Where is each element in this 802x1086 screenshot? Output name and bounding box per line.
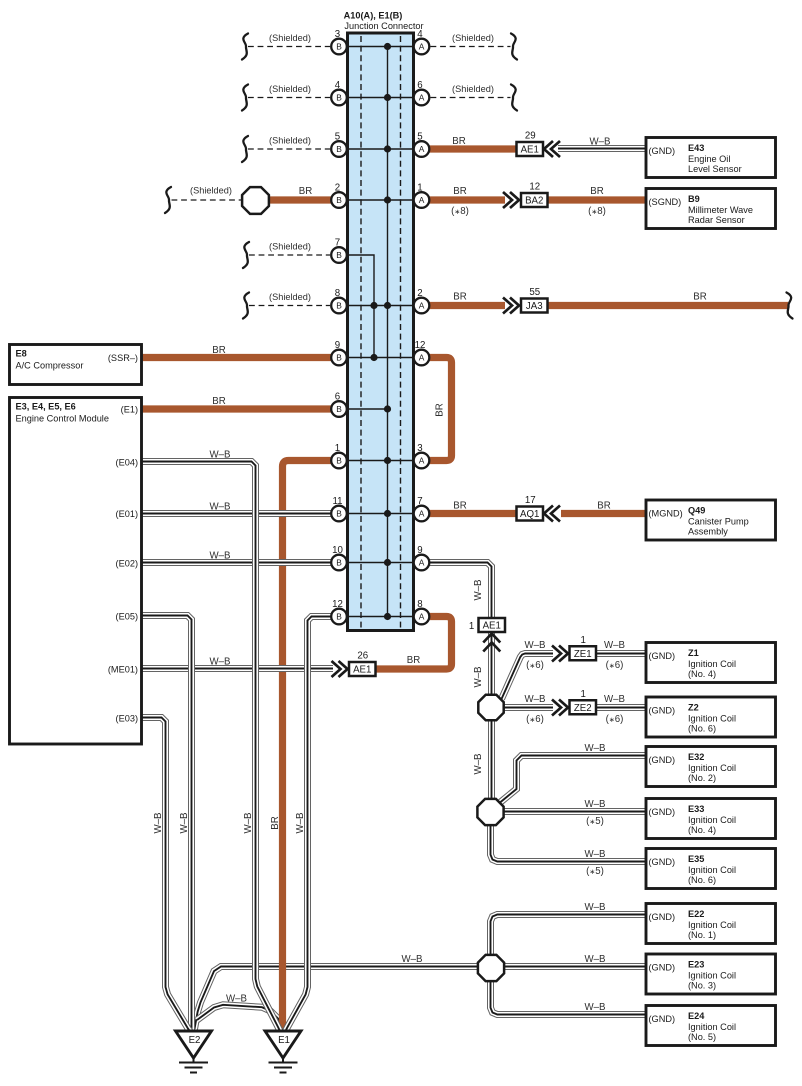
- svg-text:(Shielded): (Shielded): [452, 33, 494, 43]
- svg-text:(GND): (GND): [649, 706, 676, 716]
- svg-text:E2: E2: [189, 1035, 201, 1046]
- wire BR A7 to AQ1: [430, 510, 518, 517]
- svg-text:(E1): (E1): [121, 405, 138, 415]
- connector ZE2 pin 1: [570, 689, 597, 715]
- svg-text:Assembly: Assembly: [688, 527, 728, 537]
- svg-text:W–B: W–B: [473, 667, 484, 688]
- svg-text:W–B: W–B: [585, 743, 606, 754]
- internal row wire row 11: [348, 562, 413, 564]
- wire W-B splice3 to E24: [491, 981, 647, 1015]
- svg-text:B: B: [336, 456, 342, 466]
- shield brace row1 right: [511, 34, 517, 60]
- shielded wire row2 right: [431, 97, 511, 99]
- svg-text:Radar Sensor: Radar Sensor: [688, 215, 745, 225]
- svg-text:7: 7: [417, 496, 422, 507]
- shielded wire row2 left: [248, 97, 330, 99]
- terminal B7: [331, 238, 347, 263]
- svg-text:E22: E22: [688, 909, 704, 919]
- terminal B5: [331, 132, 347, 157]
- svg-text:Level Sensor: Level Sensor: [688, 164, 742, 174]
- connector AE1 pin 1: [469, 618, 505, 632]
- svg-text:B9: B9: [688, 194, 700, 204]
- internal row wire row 3: [348, 148, 413, 150]
- svg-text:W–B: W–B: [590, 137, 611, 148]
- svg-text:Z1: Z1: [688, 648, 699, 658]
- svg-text:W–B: W–B: [585, 902, 606, 913]
- shield brace row3 left: [242, 136, 248, 162]
- svg-text:JA3: JA3: [526, 301, 543, 312]
- svg-text:ZE2: ZE2: [574, 703, 592, 714]
- junction dot: [384, 145, 391, 152]
- svg-text:BR: BR: [212, 345, 225, 356]
- terminal B8: [331, 288, 347, 313]
- svg-text:B: B: [336, 404, 342, 414]
- connector JA3 pin 55: [521, 287, 548, 313]
- chevrons AE1-29 (female): [544, 141, 560, 157]
- svg-text:(SSR–): (SSR–): [108, 353, 138, 363]
- junction dot: [384, 302, 391, 309]
- component E33 Ignition Coil No4: [646, 799, 776, 839]
- svg-text:B: B: [336, 509, 342, 519]
- svg-text:5: 5: [335, 132, 340, 143]
- wire W-B ZE1 to Z1: [597, 650, 647, 657]
- svg-text:AE1: AE1: [521, 145, 539, 156]
- component E43 Engine Oil Level Sensor: [646, 138, 776, 178]
- svg-text:E43: E43: [688, 143, 704, 153]
- internal row wire row 9: [348, 460, 413, 462]
- svg-text:A: A: [419, 558, 425, 568]
- svg-text:W–B: W–B: [525, 694, 546, 705]
- svg-text:(No. 1): (No. 1): [688, 930, 716, 940]
- terminal B2: [331, 183, 347, 208]
- svg-text:BR: BR: [453, 186, 466, 197]
- svg-text:(GND): (GND): [649, 651, 676, 661]
- shield brace row1 left: [242, 34, 248, 60]
- svg-text:Ignition Coil: Ignition Coil: [688, 1022, 736, 1032]
- svg-text:W–B: W–B: [585, 1002, 606, 1013]
- svg-text:(No. 2): (No. 2): [688, 773, 716, 783]
- chevrons AE1-26 (male): [332, 661, 348, 677]
- wire W-B E02 to B10: [142, 559, 332, 566]
- svg-text:B: B: [336, 250, 342, 260]
- splice octagon 1: [478, 695, 503, 720]
- svg-text:(GND): (GND): [649, 1014, 676, 1024]
- svg-text:6: 6: [417, 80, 422, 91]
- svg-text:11: 11: [332, 496, 342, 507]
- wire BR A5 to AE1: [430, 145, 518, 152]
- svg-text:B: B: [336, 93, 342, 103]
- junction dot: [370, 302, 377, 309]
- junction dot: [384, 457, 391, 464]
- svg-text:9: 9: [335, 340, 340, 351]
- wire W-B ME01 to AE1-26: [142, 665, 334, 672]
- component Z1 Ignition Coil No4: [646, 643, 776, 683]
- ground E2 hatching: [179, 1058, 208, 1073]
- svg-text:W–B: W–B: [473, 580, 484, 601]
- wire W-B splice2 to E33: [504, 808, 647, 815]
- svg-text:A10(A), E1(B): A10(A), E1(B): [344, 11, 403, 21]
- junction dot: [370, 354, 377, 361]
- svg-text:BR: BR: [453, 292, 466, 303]
- svg-text:(∗6): (∗6): [606, 714, 624, 725]
- svg-text:(GND): (GND): [649, 963, 676, 973]
- wire BR AQ1 to Q49: [561, 510, 646, 517]
- shield brace row6 left: [243, 293, 249, 319]
- terminal B12: [331, 599, 347, 624]
- wire W-B splice1 to ZE1: [502, 654, 554, 700]
- terminal A6: [414, 80, 430, 105]
- svg-text:8: 8: [335, 288, 340, 299]
- svg-text:(Shielded): (Shielded): [269, 33, 311, 43]
- svg-text:(No. 4): (No. 4): [688, 825, 716, 835]
- svg-text:W–B: W–B: [210, 657, 231, 668]
- svg-text:(ME01): (ME01): [108, 665, 138, 675]
- svg-text:8: 8: [417, 599, 422, 610]
- svg-text:5: 5: [417, 132, 422, 143]
- ground E1 triangle: [265, 1031, 301, 1058]
- svg-text:W–B: W–B: [295, 813, 306, 834]
- svg-text:A/C Compressor: A/C Compressor: [16, 361, 84, 371]
- connector ZE1 pin 1: [570, 635, 597, 661]
- component E23 Ignition Coil No3: [646, 954, 776, 994]
- svg-text:(E01): (E01): [116, 509, 138, 519]
- wire W-B splice2 to E32: [500, 756, 646, 803]
- svg-text:W–B: W–B: [210, 502, 231, 513]
- svg-text:W–B: W–B: [585, 849, 606, 860]
- ground E2 triangle: [176, 1031, 212, 1058]
- svg-text:BA2: BA2: [525, 196, 543, 207]
- connector BA2 pin 12: [521, 182, 548, 208]
- terminal A4: [414, 29, 430, 54]
- svg-text:AE1: AE1: [483, 621, 501, 632]
- internal row wire row 10: [348, 513, 413, 515]
- component B9 Millimeter Wave Radar Sensor: [646, 189, 776, 229]
- svg-text:A: A: [419, 301, 425, 311]
- wire BR A8 to AE1-26: [376, 617, 452, 670]
- chevrons ZE1 (male): [552, 646, 568, 662]
- svg-text:(No. 3): (No. 3): [688, 981, 716, 991]
- wire W-B splice3 to E23: [504, 963, 646, 970]
- svg-text:26: 26: [357, 651, 368, 662]
- svg-text:A: A: [419, 144, 425, 154]
- svg-text:W–B: W–B: [585, 954, 606, 965]
- wire W-B ZE2 to Z2: [597, 704, 647, 711]
- junction dot: [384, 559, 391, 566]
- internal dashed bus line right: [400, 36, 402, 628]
- svg-text:Engine Oil: Engine Oil: [688, 154, 730, 164]
- wire W-B splice1 to splice2: [488, 720, 495, 799]
- internal row wire row 12: [348, 616, 413, 618]
- terminal A9: [414, 545, 430, 570]
- svg-text:(∗8): (∗8): [588, 206, 606, 217]
- svg-text:A: A: [419, 509, 425, 519]
- svg-text:E3, E4, E5, E6: E3, E4, E5, E6: [16, 402, 76, 412]
- svg-text:(∗6): (∗6): [526, 660, 544, 671]
- svg-text:(No. 4): (No. 4): [688, 669, 716, 679]
- svg-text:Millimeter Wave: Millimeter Wave: [688, 205, 753, 215]
- svg-text:E1: E1: [278, 1035, 290, 1046]
- shielded wire row4 left: [172, 199, 243, 201]
- svg-text:A: A: [419, 195, 425, 205]
- shielded wire row3 left: [248, 148, 330, 150]
- shield brace row4 left: [165, 187, 171, 213]
- shield brace row2 left: [242, 85, 248, 111]
- svg-text:(SGND): (SGND): [649, 197, 682, 207]
- svg-text:A: A: [419, 353, 425, 363]
- svg-text:W–B: W–B: [243, 813, 254, 834]
- svg-text:(E04): (E04): [116, 458, 138, 468]
- junction dot: [384, 510, 391, 517]
- svg-text:AQ1: AQ1: [520, 509, 539, 520]
- shielded wire row1 left: [248, 46, 330, 48]
- svg-text:E23: E23: [688, 960, 704, 970]
- junction dot: [384, 613, 391, 620]
- svg-text:1: 1: [417, 183, 422, 194]
- svg-text:W–B: W–B: [585, 799, 606, 810]
- junction dot: [384, 196, 391, 203]
- svg-text:B: B: [336, 301, 342, 311]
- svg-text:BR: BR: [452, 136, 465, 147]
- svg-text:1: 1: [469, 621, 474, 632]
- svg-text:E35: E35: [688, 854, 704, 864]
- internal row wire row 7: [348, 357, 413, 359]
- svg-text:Ignition Coil: Ignition Coil: [688, 815, 736, 825]
- wire W-B splice2 to E35: [491, 825, 647, 862]
- wire W-B E03 to ground E2: [142, 718, 191, 1032]
- svg-text:W–B: W–B: [604, 640, 625, 651]
- svg-text:B: B: [336, 195, 342, 205]
- svg-text:E33: E33: [688, 804, 704, 814]
- svg-text:W–B: W–B: [525, 640, 546, 651]
- svg-text:10: 10: [332, 545, 343, 556]
- terminal B3: [331, 29, 347, 54]
- svg-text:E24: E24: [688, 1011, 705, 1021]
- svg-text:W–B: W–B: [473, 754, 484, 775]
- svg-text:B: B: [336, 612, 342, 622]
- internal center bus line: [387, 47, 389, 617]
- svg-text:(Shielded): (Shielded): [452, 84, 494, 94]
- svg-text:9: 9: [417, 545, 422, 556]
- svg-text:(∗6): (∗6): [606, 660, 624, 671]
- wire W-B E05 to ground E2: [142, 616, 192, 1032]
- svg-text:4: 4: [417, 29, 423, 40]
- svg-text:(GND): (GND): [649, 912, 676, 922]
- svg-text:E8: E8: [16, 349, 27, 359]
- svg-text:ZE1: ZE1: [574, 649, 592, 660]
- svg-text:E32: E32: [688, 752, 704, 762]
- svg-text:Q49: Q49: [688, 506, 705, 516]
- wire BR ECM E1 to B6: [142, 405, 332, 412]
- splice octagon 2: [477, 799, 503, 825]
- svg-text:12: 12: [415, 340, 426, 351]
- internal row wire row 2: [348, 97, 413, 99]
- terminal B6: [331, 392, 347, 417]
- svg-text:(∗5): (∗5): [586, 866, 604, 877]
- svg-text:(∗5): (∗5): [586, 816, 604, 827]
- wire BR A1 to BA2: [430, 196, 506, 203]
- wire BR B1 to ground E1: [283, 461, 332, 1032]
- svg-text:12: 12: [529, 182, 540, 193]
- terminal A8: [414, 599, 430, 624]
- svg-text:7: 7: [335, 238, 340, 249]
- svg-text:B: B: [336, 558, 342, 568]
- svg-text:BR: BR: [270, 816, 281, 829]
- chevrons JA3 (male): [503, 298, 519, 314]
- svg-text:W–B: W–B: [153, 813, 164, 834]
- shield brace row2 right: [511, 85, 517, 111]
- svg-text:B: B: [336, 353, 342, 363]
- internal row wire row 4: [348, 199, 413, 201]
- svg-text:(Shielded): (Shielded): [269, 84, 311, 94]
- svg-text:Engine Control Module: Engine Control Module: [16, 414, 109, 424]
- svg-text:(Shielded): (Shielded): [269, 242, 311, 252]
- svg-text:BR: BR: [407, 655, 420, 666]
- svg-text:(Shielded): (Shielded): [269, 136, 311, 146]
- wire W-B B12 to ground E1: [286, 617, 332, 1032]
- svg-text:BR: BR: [453, 501, 466, 512]
- svg-text:(No. 6): (No. 6): [688, 724, 716, 734]
- svg-text:1: 1: [581, 689, 586, 700]
- component E24 Ignition Coil No5: [646, 1006, 776, 1046]
- terminal B1: [331, 443, 347, 468]
- wire BR splice to B2: [268, 196, 331, 203]
- wire W-B splice1 to ZE2: [504, 704, 553, 711]
- svg-text:2: 2: [417, 288, 422, 299]
- svg-text:BR: BR: [693, 292, 706, 303]
- component E3,E4,E5,E6 Engine Control Module box: [10, 398, 142, 745]
- svg-text:W–B: W–B: [226, 994, 247, 1005]
- shielded wire row1 right: [431, 46, 511, 48]
- svg-text:55: 55: [529, 287, 540, 298]
- svg-text:W–B: W–B: [210, 551, 231, 562]
- svg-text:A: A: [419, 93, 425, 103]
- splice octagon 3: [478, 955, 504, 981]
- wire BR JA3 to edge: [548, 302, 789, 309]
- svg-text:(Shielded): (Shielded): [190, 186, 232, 196]
- splice octagon row4: [242, 187, 269, 214]
- svg-text:(E05): (E05): [116, 612, 138, 622]
- svg-text:A: A: [419, 456, 425, 466]
- svg-text:Ignition Coil: Ignition Coil: [688, 920, 736, 930]
- wire W-B ground E2 to splice3: [195, 967, 479, 1030]
- internal bus line from pin B7: [348, 255, 374, 358]
- svg-text:(No. 6): (No. 6): [688, 875, 716, 885]
- brace BR right edge: [787, 293, 793, 319]
- svg-text:(∗6): (∗6): [526, 714, 544, 725]
- svg-text:AE1: AE1: [353, 665, 371, 676]
- shield brace row5 left: [243, 242, 249, 268]
- internal row wire row 1: [348, 46, 413, 48]
- shielded wire row6 left: [249, 305, 330, 307]
- connector AE1 pin 29: [517, 131, 544, 157]
- svg-text:(E02): (E02): [116, 559, 138, 569]
- svg-text:(GND): (GND): [649, 146, 676, 156]
- junction dot: [384, 94, 391, 101]
- svg-text:Ignition Coil: Ignition Coil: [688, 763, 736, 773]
- svg-text:(GND): (GND): [649, 857, 676, 867]
- svg-text:(GND): (GND): [649, 755, 676, 765]
- wire W-B splice3 to E22: [491, 915, 647, 956]
- terminal A7: [414, 496, 430, 521]
- ground E1 hatching: [269, 1058, 298, 1073]
- svg-text:BR: BR: [590, 186, 603, 197]
- svg-text:W–B: W–B: [179, 813, 190, 834]
- terminal A5: [414, 132, 430, 157]
- svg-text:A: A: [419, 612, 425, 622]
- svg-text:4: 4: [335, 80, 341, 91]
- svg-text:A: A: [419, 42, 425, 52]
- chevrons AQ1 (female): [544, 506, 560, 522]
- chevrons BA2 (male): [503, 192, 519, 208]
- wire W-B E01 to B11: [142, 510, 332, 517]
- svg-text:W–B: W–B: [604, 694, 625, 705]
- wire BR BA2 to B9 box: [548, 196, 647, 203]
- component E8 A/C Compressor box: [10, 345, 142, 385]
- wire BR E8 SSR- to B9: [142, 354, 332, 361]
- svg-text:Ignition Coil: Ignition Coil: [688, 865, 736, 875]
- internal dashed bus line left: [360, 36, 362, 628]
- terminal A1: [414, 183, 430, 208]
- svg-text:Ignition Coil: Ignition Coil: [688, 659, 736, 669]
- component Z2 Ignition Coil No6: [646, 697, 776, 737]
- junction dot: [384, 405, 391, 412]
- internal row wire row 6: [348, 305, 413, 307]
- wire W-B AE1 to E43: [558, 145, 646, 152]
- svg-text:(∗8): (∗8): [451, 206, 469, 217]
- terminal B10: [331, 545, 347, 570]
- wire BR A2 to JA3: [430, 302, 506, 309]
- terminal B9: [331, 340, 347, 365]
- svg-text:BR: BR: [597, 501, 610, 512]
- svg-text:6: 6: [335, 392, 340, 403]
- svg-text:17: 17: [525, 495, 536, 506]
- svg-text:Ignition Coil: Ignition Coil: [688, 714, 736, 724]
- svg-text:12: 12: [332, 599, 343, 610]
- svg-text:(No. 5): (No. 5): [688, 1032, 716, 1042]
- wire W-B A9 down to splice 1: [430, 563, 492, 696]
- junction connector A10(A)/E1(B) body: [348, 33, 414, 631]
- svg-text:(MGND): (MGND): [649, 509, 683, 519]
- svg-text:Canister Pump: Canister Pump: [688, 517, 749, 527]
- terminal B11: [331, 496, 347, 521]
- svg-text:W–B: W–B: [210, 450, 231, 461]
- wire BR loop A12 to A3: [430, 358, 452, 461]
- svg-text:(E03): (E03): [116, 714, 138, 724]
- svg-text:(GND): (GND): [649, 807, 676, 817]
- svg-text:1: 1: [335, 443, 340, 454]
- connector AE1 pin 26: [349, 651, 376, 677]
- junction dot: [384, 43, 391, 50]
- component E32 Ignition Coil No2: [646, 747, 776, 787]
- svg-text:1: 1: [581, 635, 586, 646]
- terminal B4: [331, 80, 347, 105]
- svg-text:W–B: W–B: [402, 954, 423, 965]
- chevrons ZE2 (male): [552, 700, 568, 716]
- wire W-B E04 to ground E1: [142, 462, 281, 1032]
- terminal A12: [414, 340, 430, 365]
- svg-text:B: B: [336, 42, 342, 52]
- internal row wire row 8 (B6): [348, 408, 388, 410]
- svg-text:29: 29: [525, 131, 536, 142]
- svg-text:BR: BR: [299, 186, 312, 197]
- component Q49 Canister Pump Assembly: [646, 500, 776, 540]
- svg-text:B: B: [336, 144, 342, 154]
- svg-text:BR: BR: [212, 396, 225, 407]
- svg-text:3: 3: [335, 29, 340, 40]
- terminal A2: [414, 288, 430, 313]
- component E22 Ignition Coil No1: [646, 904, 776, 944]
- svg-text:3: 3: [417, 443, 422, 454]
